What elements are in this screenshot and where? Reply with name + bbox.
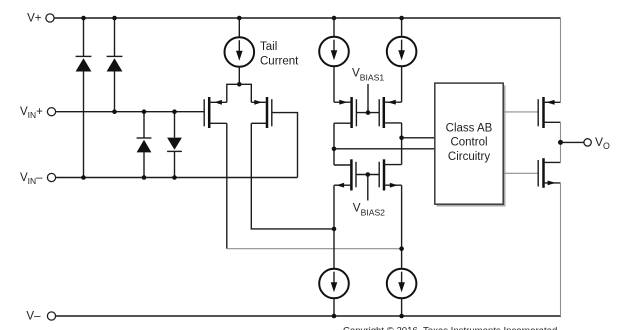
node VIN+ terminal circle [47, 108, 55, 116]
svg-text:Tail: Tail [260, 41, 277, 53]
transistor M8 output NMOS [538, 158, 560, 188]
junction dot D4 top on VIN+ [172, 109, 177, 114]
transistor M5 lower cascode left NMOS [334, 159, 356, 190]
junction dot D1 bottom on VIN- [81, 175, 86, 180]
wire tail to diff sources [238, 67, 240, 85]
diode D1 (VIN- to V+) [76, 18, 92, 178]
wire output node to VO terminal [561, 141, 584, 143]
wire VBIAS1 to upper gates [367, 84, 369, 113]
current source I3 bottom left [319, 269, 349, 299]
junction dot output node [558, 140, 563, 145]
node V+ terminal circle [46, 14, 54, 22]
diode D3 (VIN- to VIN+, pointing up) [137, 112, 152, 178]
transistor M7 output PMOS [538, 97, 560, 128]
transistor M3 upper cascode left [334, 97, 356, 128]
junction dot I3 on V- [332, 314, 337, 319]
wire node A to Class AB box [334, 148, 435, 150]
wire M1 drain to right cascode source (thin) [227, 248, 402, 250]
current source I2 [387, 37, 417, 67]
wire box to M7 gate (thin) [504, 111, 538, 113]
wire VIN+ rail [56, 111, 204, 113]
wire M4 drain down to node B [401, 123, 403, 165]
wire M6 source down to bottom current source [401, 185, 403, 269]
svg-text:Current: Current [260, 55, 299, 67]
node VIN- terminal circle [47, 173, 55, 181]
transistor M1 diff pair left PMOS [204, 97, 227, 128]
wire VIN- rail [56, 177, 298, 179]
junction dot M6 source / M1 drain [399, 246, 404, 251]
wire I3 to V- [333, 298, 335, 316]
svg-text:Copyright © 2016, Texas Instru: Copyright © 2016, Texas Instruments Inco… [343, 325, 557, 330]
svg-text:V–: V– [26, 310, 41, 322]
wire upper cascode gate line [356, 112, 379, 114]
diode D4 (VIN+ to VIN-, pointing down) [167, 112, 182, 178]
Class AB control block shadow [437, 86, 505, 206]
wire M5 source down to bottom current source [333, 185, 335, 269]
wire lower cascode gate line [356, 174, 379, 176]
svg-text:Circuitry: Circuitry [448, 151, 490, 163]
wire output column V+ to M7 source (thin) [560, 18, 562, 102]
wire node B to Class AB box [402, 137, 435, 139]
junction dot D3 bottom on VIN- [142, 175, 147, 180]
svg-text:V+: V+ [27, 13, 42, 25]
diode D2 (VIN+ to V+) [107, 18, 123, 112]
junction dot D2 top [112, 16, 117, 21]
wire I4 to V- [401, 298, 403, 316]
junction dot lower gates [366, 172, 371, 177]
wire M7 drain to M8 drain (thin) [560, 122, 562, 162]
wire V+ to I2 [401, 18, 403, 37]
wire V+ to I1 [333, 18, 335, 37]
junction dot D2 bottom on VIN+ [112, 109, 117, 114]
wire M2 drain down and left to cascode node [251, 123, 334, 229]
junction dot node A [332, 147, 337, 152]
wire V- rail [56, 315, 561, 317]
node VO terminal circle [584, 139, 591, 146]
junction dot node B [399, 136, 404, 141]
wire I1 to M3 source [333, 66, 335, 102]
node V- terminal circle [47, 312, 55, 320]
wire M1 drain down [226, 123, 228, 248]
transistor M2 diff pair right PMOS [251, 97, 271, 128]
junction dot diff source rail [237, 82, 242, 87]
wire V+ rail [54, 17, 560, 19]
current source I1 [319, 37, 349, 67]
svg-text:Control: Control [450, 137, 487, 149]
current source I-tail [225, 37, 255, 67]
wire V+ to tail source [238, 18, 240, 37]
current source I4 bottom right [387, 269, 417, 299]
wire M8 source to V- (thin) [560, 183, 562, 316]
junction dot D1 top [81, 16, 86, 21]
Class AB control block U1 [435, 83, 503, 204]
junction dot I4 on V- [399, 314, 404, 319]
junction dot D4 bottom on VIN- [172, 175, 177, 180]
transistor M6 lower cascode right NMOS [379, 159, 401, 190]
junction dot M5 source / M2 drain [332, 227, 337, 232]
wire diff source rail [227, 84, 252, 102]
wire I2 to M4 source [401, 66, 403, 102]
svg-text:Class AB: Class AB [446, 123, 493, 135]
wire M3 drain down to node A [333, 123, 335, 165]
junction dot tail on V+ [237, 16, 242, 21]
junction dot upper-left current source on V+ [332, 16, 337, 21]
transistor M4 upper cascode right [379, 97, 401, 128]
junction dot D3 top on VIN+ [142, 109, 147, 114]
junction dot upper gates [366, 110, 371, 115]
junction dot upper-right current source on V+ [399, 16, 404, 21]
wire box to M8 gate (thin) [504, 172, 538, 174]
wire lower gates to VBIAS2 [367, 175, 369, 201]
wire M2 gate loop to VIN- [272, 113, 297, 178]
